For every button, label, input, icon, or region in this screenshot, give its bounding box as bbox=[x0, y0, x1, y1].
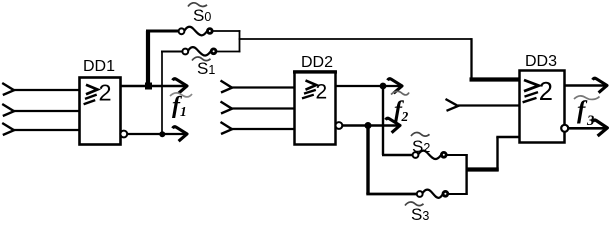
wire DD1 input 3 bbox=[13, 129, 79, 131]
switch S3 bbox=[417, 190, 448, 198]
wire thick DD3 input 1 bbox=[470, 77, 520, 81]
wire S1 left elbow bbox=[161, 51, 183, 53]
label f1 bbox=[172, 93, 187, 119]
svg-text:2: 2 bbox=[316, 81, 328, 104]
wire DD2 inverted output f2n bbox=[342, 124, 398, 126]
output arrow f1n bbox=[173, 127, 187, 141]
label S2 tilde bbox=[411, 133, 430, 137]
wire DD3 input 2 bbox=[458, 104, 519, 106]
output arrow f2n bbox=[386, 118, 400, 132]
wire DD1 input 1 bbox=[13, 89, 79, 91]
gate DD1 box bbox=[80, 78, 121, 145]
wire DD3 inverted output f3n bbox=[568, 127, 605, 130]
svg-text:DD3: DD3 bbox=[525, 53, 557, 70]
wire DD2 input 2 bbox=[231, 107, 294, 109]
wire S0 to right bus bbox=[212, 30, 240, 32]
wire join bus vertical bbox=[465, 154, 467, 195]
svg-text:DD1: DD1 bbox=[83, 58, 115, 75]
wire long run to DD3 bbox=[239, 38, 472, 40]
wire S2 to join bus bbox=[446, 154, 467, 156]
wire thick drop to S3 bbox=[366, 126, 369, 195]
output arrow f3n bbox=[593, 120, 608, 136]
wire drop f2 to S2 bbox=[382, 86, 384, 155]
node junction f2 to S2 bbox=[380, 83, 387, 90]
input arrow DD2.1 bbox=[221, 81, 233, 93]
svg-text:2: 2 bbox=[401, 109, 409, 124]
label S0 tilde bbox=[188, 3, 207, 7]
input arrow DD1.3 bbox=[2, 123, 14, 135]
node dot S1 to f1n bbox=[159, 131, 165, 137]
label S1 tilde bbox=[192, 57, 211, 61]
output arrow f2 bbox=[388, 79, 402, 93]
gate DD2 symbol >=2 bbox=[302, 80, 327, 103]
wire S0 left elbow bbox=[146, 30, 180, 33]
label S3 tilde bbox=[405, 202, 424, 206]
wire S3 left elbow bbox=[366, 193, 417, 196]
wire drop to DD3 input bbox=[470, 38, 472, 79]
gate DD3 symbol >=2 bbox=[523, 78, 553, 106]
switch S2 bbox=[413, 151, 447, 159]
input arrow DD3.2 bbox=[446, 99, 459, 111]
gate DD3 inverted output bubble bbox=[561, 125, 568, 132]
gate DD1 inverted output bubble bbox=[120, 131, 127, 138]
gate DD2 inverted output bubble bbox=[336, 122, 343, 129]
gate DD3 box bbox=[520, 71, 565, 143]
wire DD2 input 1 bbox=[231, 86, 294, 88]
gate DD1 symbol >=2 bbox=[84, 80, 112, 106]
wire S3 to join bus bbox=[448, 193, 468, 195]
output arrow f1 bbox=[173, 79, 187, 93]
wire thick join run bbox=[466, 167, 499, 171]
label f2 bbox=[394, 98, 409, 125]
wire S1 to right bus bbox=[216, 51, 240, 53]
svg-text:DD2: DD2 bbox=[301, 54, 333, 71]
wire DD2 input 3 bbox=[231, 128, 294, 130]
switch S1 bbox=[182, 47, 216, 55]
wire DD2 output f2 bbox=[336, 85, 401, 87]
gate DD2 box bbox=[295, 72, 336, 145]
svg-text:3: 3 bbox=[586, 113, 594, 129]
svg-text:2: 2 bbox=[99, 80, 112, 106]
wire DD3 input 3 bbox=[496, 136, 519, 138]
input arrow DD1.2 bbox=[2, 104, 14, 116]
node junction f2n to S3 bbox=[365, 122, 372, 129]
label f3 tilde bbox=[574, 96, 600, 100]
node junction on f1 wire bbox=[145, 83, 152, 90]
wire right bus vertical bbox=[239, 30, 241, 52]
label f2 tilde bbox=[391, 91, 409, 95]
input arrow DD1.1 bbox=[2, 83, 14, 95]
svg-text:1: 1 bbox=[180, 104, 187, 119]
wire S2 left elbow bbox=[382, 154, 413, 157]
wire DD1 inverted output f1n bbox=[127, 133, 186, 135]
wire DD1 output f1 bbox=[121, 85, 186, 88]
label f3 bbox=[577, 97, 594, 129]
gate DD2 top border thick bbox=[293, 70, 337, 73]
wire DD3 output f3 bbox=[565, 84, 607, 86]
input arrow DD2.3 bbox=[221, 122, 233, 134]
svg-text:2: 2 bbox=[539, 78, 553, 106]
switch S0 bbox=[179, 27, 213, 36]
wire DD1 input 2 bbox=[13, 110, 79, 112]
label f1 tilde bbox=[170, 93, 192, 97]
wire riser to DD3 input 3 bbox=[496, 137, 498, 171]
wire S1 vertical to inverted output bbox=[161, 52, 163, 135]
wire thick riser to S0 bbox=[146, 31, 150, 86]
output arrow f3 bbox=[593, 78, 607, 92]
input arrow DD2.2 bbox=[221, 102, 233, 114]
